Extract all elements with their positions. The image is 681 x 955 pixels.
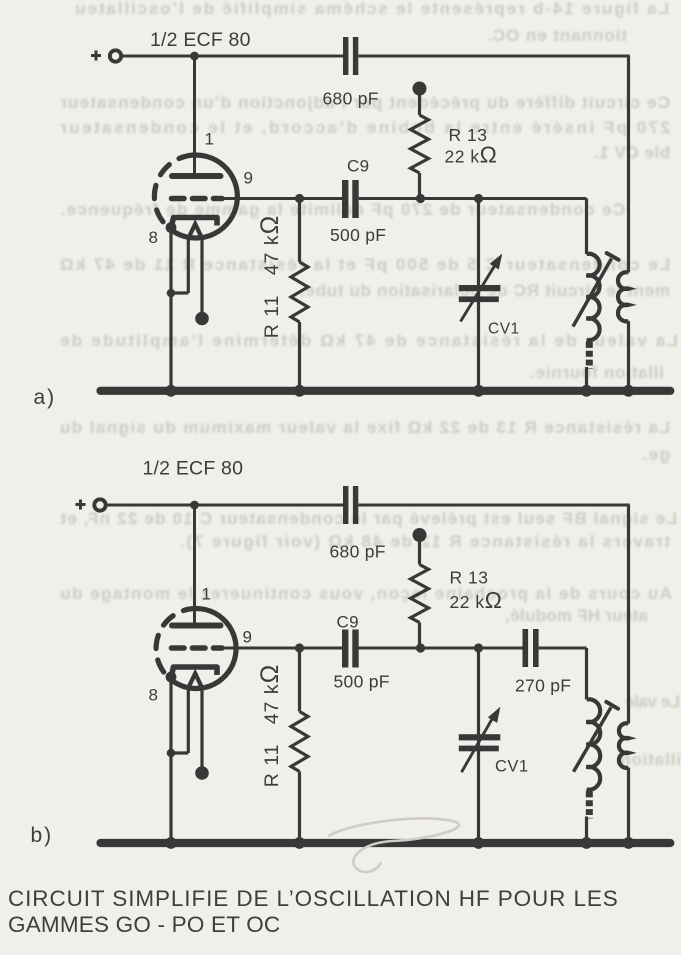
- svg-text:a): a): [34, 386, 57, 409]
- wire: HT rail from + terminal to top-right corner (a): [122, 55, 630, 58]
- stray pencil loop mark: [328, 818, 459, 872]
- inductor L1 tuned winding (adjustable) (b): [587, 699, 601, 789]
- node: grid/R11 junction (a): [295, 194, 304, 203]
- tube V1b 1/2 ECF80 triode envelope: [156, 608, 236, 688]
- node: rail junction R11 (a): [294, 385, 306, 397]
- wire: cathode lead down to ground rail (b): [169, 677, 172, 843]
- node: cathode/heater junction dot (a): [167, 289, 176, 298]
- svg-text:1: 1: [202, 585, 211, 604]
- node: grid/R11 junction (b): [295, 643, 304, 652]
- capacitor 270 pF (b): [523, 629, 539, 667]
- node: CV1 top junction (b): [474, 643, 483, 652]
- svg-text:1/2 ECF 80: 1/2 ECF 80: [143, 458, 244, 480]
- node: rail junction cathode (a): [165, 385, 177, 397]
- HT supply + terminal (a): [91, 50, 121, 61]
- tube V1a pin 8 junction dot: [166, 222, 177, 233]
- tube V1b pin 8 junction dot: [166, 672, 177, 683]
- tube V1b cathode bar (pin 8): [172, 667, 218, 676]
- ferrite core (dashed bar) of L1 (a): [586, 342, 593, 369]
- wire: HT rail from + terminal to top-right corner (b): [106, 504, 630, 507]
- tube V1a cathode bar (pin 8): [172, 218, 218, 227]
- adjustment arrow through L1 (b): [574, 702, 619, 772]
- svg-text:680 pF: 680 pF: [323, 89, 379, 109]
- wire: L1 bottom to rail (a): [585, 367, 588, 391]
- node: rail junction L2 (b): [623, 837, 635, 849]
- tube V1a 1/2 ECF80 triode envelope: [154, 155, 237, 238]
- caption line 1: [8, 886, 619, 912]
- resistor R11 47k (a): [291, 199, 308, 391]
- wire: heater left leg to cathode jog (a): [171, 239, 188, 294]
- node: cathode/heater junction dot (b): [167, 749, 176, 758]
- capacitor C9 500 pF (b): [342, 630, 359, 668]
- node: rail junction cathode (b): [165, 837, 177, 849]
- node: rail junction L1 (b): [581, 837, 593, 849]
- wire: L2 bottom to rail (a): [627, 321, 630, 391]
- variable capacitor CV1 (a): [459, 199, 503, 391]
- node: rail junction R11 (b): [294, 837, 306, 849]
- svg-text:22 kΩ: 22 kΩ: [450, 587, 503, 613]
- node: CV1 top junction (a): [474, 194, 483, 203]
- svg-text:C9: C9: [337, 613, 359, 632]
- resistor R13 22k (a): [411, 89, 429, 199]
- svg-text:1: 1: [205, 130, 214, 149]
- svg-text:CV1: CV1: [488, 321, 520, 338]
- wire: cathode lead down to ground rail (a): [169, 228, 172, 391]
- svg-text:R 11 47 kΩ: R 11 47 kΩ: [256, 215, 284, 339]
- wire: grid node from pin 9 to tank corner (b): [222, 647, 587, 650]
- wire: right-hand vertical from top corner (a): [627, 56, 630, 273]
- node: rail junction CV1 (a): [473, 385, 485, 397]
- svg-text:500 pF: 500 pF: [334, 672, 390, 692]
- capacitor 680 pF (a): [343, 37, 358, 75]
- node: R13/grid junction (a): [416, 194, 425, 203]
- wire: heater right leg to filament supply blob (b): [200, 688, 203, 767]
- wire: grid node from pin 9 to tank corner (a): [222, 197, 587, 200]
- terminal: filament supply blob (a): [195, 312, 209, 326]
- wire: anode lead pin 1 (a): [193, 56, 196, 176]
- svg-text:C9: C9: [347, 157, 369, 176]
- node: anode lead junction on HT rail (a): [190, 52, 199, 61]
- tube V1b anode bar (pin 1): [172, 623, 221, 629]
- svg-text:22 kΩ: 22 kΩ: [445, 142, 498, 168]
- resistor R13 22k (b): [411, 535, 429, 648]
- adjustment arrow through L1 (a): [573, 253, 619, 326]
- tube V1b grid (pin 9, dashed): [172, 645, 223, 651]
- wire: L1 bottom to rail (b): [585, 817, 588, 844]
- svg-text:CV1: CV1: [495, 758, 529, 776]
- svg-text:b): b): [31, 824, 54, 847]
- tube V1a grid (pin 9, dashed): [172, 196, 223, 202]
- terminal blob atop R13 (b): [413, 528, 427, 542]
- node: R13/grid junction (b): [416, 643, 425, 652]
- inductor L2 coupling winding (b): [619, 723, 629, 768]
- svg-text:500 pF: 500 pF: [330, 225, 386, 245]
- wire: heater right leg to filament supply blob (a): [200, 239, 203, 313]
- capacitor C9 500 pF (a): [342, 180, 359, 218]
- terminal blob atop R13 (a): [413, 82, 427, 96]
- tube V1a anode bar (pin 1): [172, 173, 221, 179]
- ferrite core (dashed bar) of L1 (b): [586, 792, 593, 819]
- terminal: filament supply blob (b): [195, 766, 209, 780]
- tube V1b heater filament: [188, 674, 202, 689]
- svg-text:1/2 ECF 80: 1/2 ECF 80: [150, 29, 251, 51]
- wire: anode lead pin 1 (b): [193, 505, 196, 626]
- svg-text:R 13: R 13: [450, 568, 489, 588]
- node: rail junction L2 (a): [623, 385, 635, 397]
- inductor L1 tuned winding (adjustable) (a): [587, 254, 600, 340]
- variable capacitor CV1 (b): [459, 648, 501, 843]
- capacitor 680 pF (b): [343, 486, 358, 524]
- wire: heater left leg to cathode jog (b): [171, 688, 188, 753]
- node: anode lead junction on HT rail (b): [190, 501, 199, 510]
- svg-text:8: 8: [149, 228, 158, 247]
- tube V1a heater filament: [188, 224, 202, 239]
- svg-text:270 pF: 270 pF: [515, 676, 571, 696]
- svg-text:9: 9: [244, 169, 253, 188]
- wire: right-hand vertical from top corner (b): [627, 505, 630, 724]
- wire: tank corner down to L1 (b): [585, 648, 588, 700]
- resistor R11 47k (b): [291, 648, 308, 843]
- svg-text:9: 9: [243, 628, 252, 647]
- wire: tank corner down to L1 (a): [585, 199, 588, 255]
- svg-text:680 pF: 680 pF: [330, 542, 386, 562]
- caption line 2: [8, 912, 280, 938]
- bleed-through verso text (mirrored, decorative): [0, 0, 681, 1]
- svg-text:R 11 47 kΩ: R 11 47 kΩ: [256, 664, 284, 788]
- inductor L2 coupling winding (a): [618, 272, 629, 321]
- HT supply + terminal (b): [76, 499, 106, 510]
- wire: L2 bottom to rail (b): [627, 768, 630, 843]
- ground rail (a): [101, 387, 671, 395]
- node: rail junction L1 (a): [581, 385, 593, 397]
- node: rail junction CV1 (b): [473, 837, 485, 849]
- svg-text:8: 8: [149, 686, 158, 705]
- ground rail (b): [101, 839, 671, 847]
